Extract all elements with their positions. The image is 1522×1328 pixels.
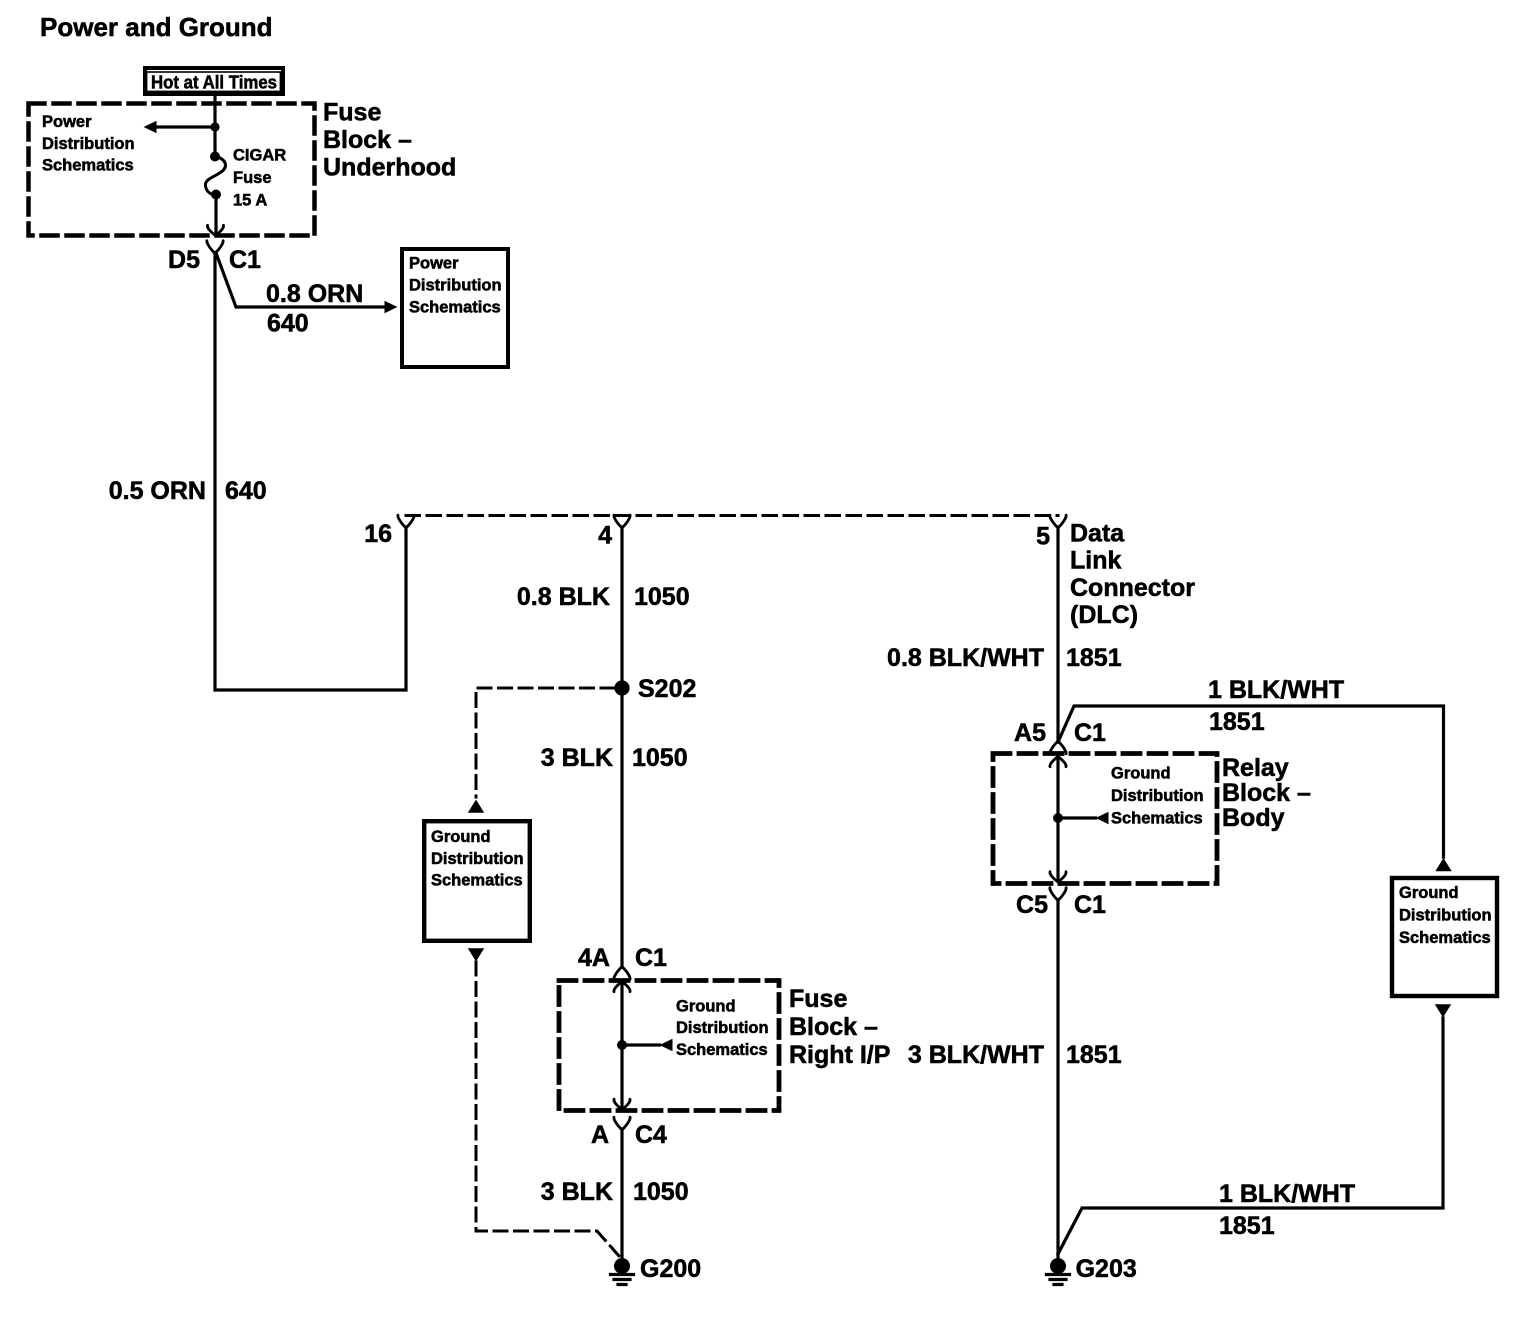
- svg-text:0.8 BLK: 0.8 BLK: [517, 583, 610, 611]
- box Power Distribution Schematics (right): [402, 249, 508, 367]
- svg-text:Ground: Ground: [1399, 884, 1459, 902]
- label Power Distribution Schematics (fuse block): [42, 113, 135, 175]
- label Relay Block Body: [1222, 754, 1311, 832]
- connector pin 16: [398, 515, 414, 528]
- svg-text:Distribution: Distribution: [409, 277, 502, 295]
- svg-text:1 BLK/WHT: 1 BLK/WHT: [1208, 676, 1344, 704]
- svg-text:A: A: [591, 1121, 609, 1149]
- svg-text:Power and Ground: Power and Ground: [40, 12, 273, 42]
- connector 4A C1: [614, 967, 630, 980]
- svg-text:4A: 4A: [578, 944, 610, 972]
- svg-text:C4: C4: [635, 1121, 667, 1149]
- node junction dot: [210, 122, 219, 131]
- svg-text:Schematics: Schematics: [1399, 929, 1491, 947]
- box Ground Distribution Schematics (right): [1392, 878, 1497, 996]
- svg-text:Distribution: Distribution: [676, 1019, 769, 1037]
- fuse block right IP box: [559, 981, 779, 1111]
- arrow to Power Distribution Schematics: [144, 121, 157, 133]
- label Fuse Block Right I/P: [789, 985, 890, 1069]
- svg-text:Fuse: Fuse: [323, 99, 381, 127]
- ground G203: [1047, 1258, 1070, 1285]
- svg-text:C1: C1: [1074, 719, 1106, 747]
- relay block body box: [993, 754, 1217, 884]
- node Hot at All Times: [145, 68, 283, 94]
- svg-text:3 BLK: 3 BLK: [541, 744, 613, 772]
- svg-text:0.5 ORN: 0.5 ORN: [109, 477, 206, 505]
- connector C5 C1: [1050, 888, 1066, 901]
- svg-text:Block –: Block –: [323, 126, 412, 154]
- svg-text:S202: S202: [638, 675, 696, 703]
- svg-text:Block –: Block –: [1222, 779, 1311, 807]
- arrow down crossing fuse block border: [207, 225, 223, 235]
- svg-text:Schematics: Schematics: [431, 872, 523, 890]
- wire from Hot at All Times to fuse: [213, 94, 216, 153]
- svg-text:Ground: Ground: [1111, 765, 1171, 783]
- svg-text:Power: Power: [409, 255, 459, 273]
- wire 3 BLK/WHT 1851: [1056, 900, 1059, 1258]
- wire 0.8 ORN 640 branch: [216, 253, 384, 307]
- label Ground Distribution Schematics (fuse block right IP): [676, 998, 769, 1060]
- svg-text:Hot at All Times: Hot at All Times: [151, 72, 277, 92]
- wire to ground distribution arrow (relay): [1058, 816, 1096, 819]
- connector A5 C1: [1050, 741, 1066, 754]
- wire fuse output: [214, 195, 217, 234]
- fuse F CIGAR 15A: [205, 152, 225, 200]
- svg-text:3 BLK: 3 BLK: [541, 1178, 613, 1206]
- wire 0.5 ORN 640: [215, 253, 406, 691]
- svg-text:1851: 1851: [1209, 708, 1265, 736]
- arrow up above left ground box: [468, 800, 484, 813]
- arrow down below left ground box: [468, 948, 484, 961]
- arrow up above right ground box: [1435, 858, 1451, 871]
- svg-text:Ground: Ground: [676, 998, 736, 1016]
- svg-text:Schematics: Schematics: [42, 157, 134, 175]
- node S202: [614, 680, 629, 695]
- arrow into Power Distribution Schematics box: [385, 301, 398, 313]
- svg-text:Schematics: Schematics: [1111, 810, 1203, 828]
- box Ground Distribution Schematics (left): [424, 821, 530, 941]
- arrow up inside relay block: [1050, 757, 1066, 767]
- wire dashed from S202 to ground distribution: [476, 688, 614, 797]
- svg-text:Block –: Block –: [789, 1013, 878, 1041]
- connector pin 4: [614, 515, 630, 528]
- ground G200: [611, 1258, 634, 1285]
- svg-text:G203: G203: [1076, 1255, 1137, 1283]
- wire 1 BLK/WHT 1851 branch (bottom): [1058, 1018, 1443, 1254]
- arrow down crossing relay block border: [1050, 872, 1066, 882]
- svg-text:C5: C5: [1016, 891, 1048, 919]
- arrow to Ground Distribution Schematics (fuse block right IP): [660, 1039, 673, 1051]
- connector D5 C1: [207, 241, 223, 254]
- svg-text:Distribution: Distribution: [1111, 787, 1204, 805]
- svg-text:640: 640: [267, 310, 309, 338]
- wire DLC bus (dashed): [406, 514, 1058, 517]
- wire 0.8 BLK/WHT 1851: [1056, 527, 1059, 742]
- svg-text:C1: C1: [1074, 891, 1106, 919]
- wire 3 BLK 1050 (lower): [620, 1129, 623, 1258]
- svg-text:Power: Power: [42, 113, 92, 131]
- svg-text:0.8 ORN: 0.8 ORN: [266, 280, 363, 308]
- wire inside fuse block right IP: [620, 982, 623, 1108]
- label Data Link Connector (DLC): [1070, 520, 1195, 630]
- svg-text:Data: Data: [1070, 520, 1125, 548]
- node junction inside fuse block right IP: [617, 1040, 627, 1050]
- svg-text:4: 4: [598, 522, 612, 550]
- svg-text:Link: Link: [1070, 547, 1121, 575]
- connector A C4: [614, 1117, 630, 1130]
- svg-text:C1: C1: [229, 246, 261, 274]
- wire to Power Distribution arrow: [151, 125, 215, 128]
- svg-text:1 BLK/WHT: 1 BLK/WHT: [1219, 1180, 1355, 1208]
- label CIGAR Fuse 15 A: [233, 147, 286, 210]
- wire inside relay block: [1056, 757, 1059, 881]
- svg-text:1851: 1851: [1066, 644, 1122, 672]
- wire 3 BLK 1050 (upper): [620, 695, 623, 967]
- wire dashed from left ground box to G200: [476, 962, 619, 1256]
- svg-text:A5: A5: [1014, 719, 1046, 747]
- node junction inside relay block: [1053, 813, 1063, 823]
- svg-text:15 A: 15 A: [233, 192, 267, 210]
- svg-text:5: 5: [1036, 523, 1050, 551]
- svg-text:0.8 BLK/WHT: 0.8 BLK/WHT: [887, 644, 1044, 672]
- arrow down below right ground box: [1435, 1004, 1451, 1017]
- wire to ground distribution arrow: [622, 1043, 660, 1046]
- wire 0.8 BLK 1050: [620, 527, 623, 681]
- svg-text:Body: Body: [1222, 804, 1285, 832]
- svg-text:Distribution: Distribution: [431, 850, 524, 868]
- svg-text:Schematics: Schematics: [409, 299, 501, 317]
- svg-text:Connector: Connector: [1070, 574, 1195, 602]
- svg-text:1050: 1050: [634, 583, 690, 611]
- label Ground Distribution Schematics (relay block): [1111, 765, 1204, 828]
- svg-text:Distribution: Distribution: [42, 135, 135, 153]
- svg-text:D5: D5: [168, 246, 200, 274]
- svg-text:1851: 1851: [1219, 1212, 1275, 1240]
- svg-text:Ground: Ground: [431, 828, 491, 846]
- svg-text:1050: 1050: [632, 744, 688, 772]
- svg-text:Schematics: Schematics: [676, 1041, 768, 1059]
- svg-text:16: 16: [364, 520, 392, 548]
- svg-text:Underhood: Underhood: [323, 154, 456, 182]
- svg-text:Right I/P: Right I/P: [789, 1041, 890, 1069]
- svg-text:3 BLK/WHT: 3 BLK/WHT: [908, 1041, 1044, 1069]
- svg-text:Fuse: Fuse: [789, 985, 847, 1013]
- arrow to Ground Distribution Schematics (relay block): [1096, 812, 1109, 824]
- svg-text:1851: 1851: [1066, 1041, 1122, 1069]
- fuse block underhood box: [29, 104, 315, 236]
- svg-text:CIGAR: CIGAR: [233, 147, 286, 165]
- svg-text:Fuse: Fuse: [233, 169, 272, 187]
- svg-text:G200: G200: [640, 1255, 701, 1283]
- svg-text:640: 640: [225, 477, 267, 505]
- arrow down crossing fuse block right IP border: [614, 1099, 630, 1109]
- wire 1 BLK/WHT 1851 branch (top): [1058, 706, 1444, 857]
- svg-text:Distribution: Distribution: [1399, 907, 1492, 925]
- label Fuse Block Underhood: [323, 99, 456, 182]
- svg-text:(DLC): (DLC): [1070, 601, 1138, 629]
- connector pin 5: [1050, 515, 1066, 528]
- svg-text:1050: 1050: [633, 1178, 689, 1206]
- arrow up inside fuse block right IP: [614, 982, 630, 992]
- svg-text:Relay: Relay: [1222, 754, 1289, 782]
- svg-text:C1: C1: [635, 944, 667, 972]
